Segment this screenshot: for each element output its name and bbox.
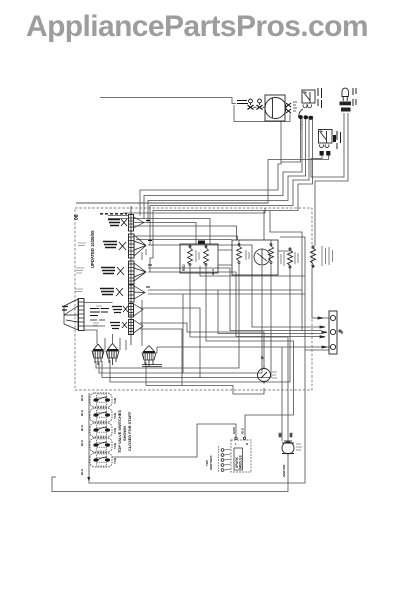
wire A pin4 run [150, 116, 313, 272]
svg-text:BK: BK [278, 433, 282, 437]
oven ignitor [282, 441, 294, 454]
valve switch V4 [90, 438, 112, 452]
spark module dashed box [231, 440, 251, 472]
svg-text:BLK: BLK [80, 439, 84, 446]
label oven lamp 25W [272, 372, 277, 378]
power terminal block [329, 311, 342, 354]
label box1 [196, 250, 199, 262]
valve switch V2 [90, 408, 112, 422]
label oven ignitor [296, 444, 302, 450]
wire SW5 out to y347 terminal bottom [140, 308, 200, 378]
wire SW4 to connector vertical [141, 300, 143, 346]
wire bake coil to oven ignitor [190, 266, 288, 441]
label door switch A [318, 88, 322, 108]
wire box2 right to x305 down [280, 237, 305, 350]
wire SW4 out1 to terminal y333.5 [148, 289, 302, 291]
oven light switch C box [319, 130, 337, 156]
wire box2 top tap [263, 211, 265, 241]
wires feeding connectors from above [97, 333, 126, 350]
wire SW2 top out2 to box2 corner [136, 239, 232, 241]
switch chain bus [130, 206, 132, 345]
wire coil4 bottom to top terminal [312, 268, 329, 318]
watermark header [26, 10, 408, 44]
wire bottom line y483 [89, 350, 329, 483]
coil3 resistor [288, 248, 293, 268]
wire box1 center tap to x305 [200, 266, 305, 276]
wire oven ignitor to bottom line y491 [52, 455, 288, 492]
selector switch output stubs [84, 303, 113, 334]
wire SW2 out to terminal y327 [148, 245, 322, 327]
svg-text:BLK: BLK [211, 268, 215, 275]
labels BLK left of valves [80, 394, 84, 475]
wire SW4 branch to terminal y333.5 [218, 290, 322, 334]
wire connector drop 3 [102, 263, 271, 378]
connector plug P3 [142, 346, 162, 368]
label wire tag top [237, 101, 248, 104]
oven light lamp top [265, 95, 286, 121]
svg-text:BLK: BLK [80, 409, 84, 416]
wire SW1 out3 to box1 top [134, 219, 210, 245]
valve switch V1 [90, 393, 112, 407]
wire lamp under-loop [234, 105, 290, 122]
spark module pins [235, 437, 246, 439]
svg-text:UPDATED 10/26/05: UPDATED 10/26/05 [90, 230, 95, 268]
switch SW2 [103, 234, 146, 260]
wire links to lamp [254, 106, 266, 108]
spark module inner box [234, 448, 243, 470]
svg-text:BLK: BLK [80, 394, 84, 401]
label tag on box1 top [198, 241, 205, 245]
svg-text:CLOSED FOR START: CLOSED FOR START [127, 411, 132, 451]
svg-text:BLK: BLK [80, 424, 84, 431]
wire SW2 top out to box2 [136, 236, 238, 240]
wire coil top stubs [190, 241, 271, 249]
svg-text:MODULE: MODULE [239, 455, 243, 469]
connector plug P2 [106, 344, 119, 366]
wire ignitor pin2 to coil4 [315, 113, 348, 246]
svg-text:IGNITOR: IGNITOR [282, 464, 286, 477]
switch SW6 [110, 320, 143, 335]
terminal lead connectors [318, 317, 327, 348]
wire y213 short [108, 208, 265, 219]
label coil3 [281, 252, 298, 266]
wire C pin1 to ignitor column [311, 113, 344, 177]
connector plug 2 [257, 99, 263, 109]
svg-text:TAN: TAN [113, 398, 117, 404]
spark module left terminals [221, 449, 230, 472]
switch SW1 [108, 215, 144, 232]
wire box2 to terminal via x302 [270, 211, 302, 331]
connector plug 1 [248, 99, 254, 109]
bold dash tags on y214 wire [100, 213, 127, 215]
wire SW3 out2 to terminal y336.5 [148, 272, 322, 337]
label coil4 [322, 246, 333, 266]
wire connector drop 4 [110, 268, 290, 382]
svg-text:N: N [246, 442, 248, 446]
wire A pin3 run [150, 116, 309, 246]
oven box2 motor assembly [232, 240, 278, 275]
svg-text:BLK: BLK [241, 427, 245, 434]
svg-text:RED: RED [182, 264, 186, 271]
svg-text:06: 06 [74, 214, 80, 220]
oven lamp [258, 367, 271, 384]
label right of selector switch [90, 309, 109, 321]
wire SW4 out2 drop to bundle [182, 294, 184, 373]
wire lamp output staircase [140, 122, 281, 216]
wire C pin2 long run y203 [76, 155, 329, 203]
labels left of switches [75, 243, 102, 326]
wire A pin2 run [148, 116, 306, 223]
switch SW3 [101, 261, 146, 284]
broil ignitor B dome [340, 88, 352, 111]
coil4 resistor [311, 246, 316, 268]
wire connector drop 1 [96, 263, 239, 368]
wire box1-box2 links [218, 250, 290, 265]
wire SW1 out2 to box1 top [134, 223, 196, 245]
svg-text:GRN: GRN [232, 427, 236, 434]
spark module left dashed rail [218, 446, 220, 472]
label box2 [246, 250, 249, 260]
dashed control panel box [75, 208, 312, 390]
wire L1 top feed [100, 98, 236, 104]
wire tags right of switch fans [146, 221, 152, 288]
wire SW3 out1 to terminal y330.5 [148, 268, 322, 331]
wire SW6 out1 to oven lamp top [140, 323, 264, 369]
oven element box1 bake/broil [180, 244, 218, 273]
oven selector switch SW7 (far left) [62, 299, 84, 331]
label wire tags at door switch harness [300, 119, 302, 128]
wire SW4 out2 junction y347 [148, 293, 305, 295]
svg-text:BR: BR [289, 433, 293, 437]
wire A pin1 run [144, 116, 302, 219]
svg-text:TAN: TAN [113, 458, 117, 464]
svg-text:B: B [261, 356, 264, 360]
svg-text:E: E [341, 331, 344, 335]
wire broil coil to y341 x293 [206, 266, 294, 438]
switch SW4 [100, 285, 145, 302]
svg-text:L: L [235, 442, 237, 446]
valve switch V5 [90, 453, 112, 467]
wire SW1 out to box1 top [134, 226, 237, 240]
wire connector drop 2 [99, 266, 262, 373]
svg-text:BLK: BLK [80, 468, 84, 475]
label 25W top lamp [293, 102, 297, 111]
svg-text:IGNITORS: IGNITORS [209, 456, 213, 470]
wire top solid line above dashed box [76, 202, 268, 204]
switch SW5 [112, 304, 143, 318]
connector plug P1 [92, 344, 104, 365]
door switch A box [298, 90, 315, 120]
wire SW6 out2 to bundle [140, 329, 182, 386]
lamp right connector X marks [286, 103, 291, 113]
wire x282 drop to ignitor flange [281, 347, 283, 441]
valve switch V3 [90, 423, 112, 437]
label switch C [337, 131, 341, 149]
wire SW6 out2 to oven lamp bottom loop [146, 362, 264, 394]
label ignitor B [353, 88, 356, 106]
wire valve switch feed to spark module [112, 424, 236, 457]
connector arrow on bottom wire [87, 477, 90, 481]
labels TAN right of valves [113, 398, 117, 464]
wire lamp return to staircase [281, 117, 301, 162]
